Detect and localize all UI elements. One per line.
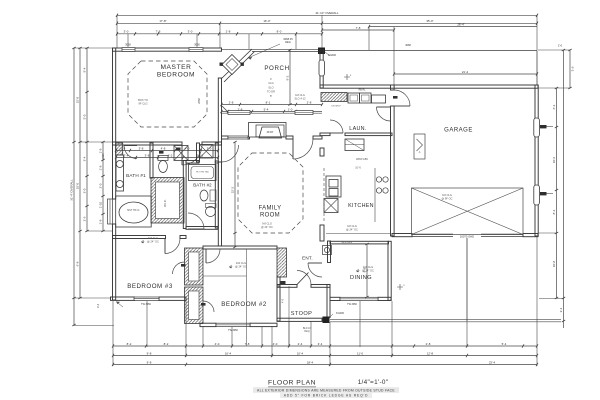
closet upper door swing xyxy=(173,262,185,274)
master bedroom south wall west part xyxy=(113,142,183,145)
stoop east wall xyxy=(327,285,330,318)
dining window xyxy=(340,297,378,300)
svg-text:9F CLG: 9F CLG xyxy=(138,101,147,105)
closet hatched walls lower xyxy=(185,287,204,324)
vanity sink 1 xyxy=(116,161,123,168)
cabinet box xyxy=(372,95,386,103)
apron line xyxy=(539,298,564,300)
stoop post (black) xyxy=(323,317,330,324)
svg-text:17'-8": 17'-8" xyxy=(159,19,166,23)
laundry recess hatched xyxy=(321,93,347,102)
svg-text:5'-4: 5'-4 xyxy=(502,342,507,346)
extension line xyxy=(80,141,112,143)
kitchen north wall stub xyxy=(320,133,330,136)
svg-text:2'-8: 2'-8 xyxy=(426,342,431,346)
elevation cross marker xyxy=(344,74,350,80)
svg-text:4'-0: 4'-0 xyxy=(273,342,278,346)
bedroom 2 north wall xyxy=(203,246,277,249)
svg-text:10'-8: 10'-8 xyxy=(552,260,556,267)
dining north colonnade xyxy=(330,241,389,244)
drive edge xyxy=(330,321,561,323)
left overall dim xyxy=(70,47,76,326)
svg-text:MASTER: MASTER xyxy=(160,64,191,71)
toilet bath1 xyxy=(158,156,168,161)
stoop north wall west xyxy=(277,285,297,288)
bedroom 3 north wall west part xyxy=(113,236,166,239)
left dim 4 xyxy=(99,141,105,232)
family room dim xyxy=(231,141,237,248)
ent closet box with circle xyxy=(323,246,332,255)
svg-text:16070 OHD: 16070 OHD xyxy=(460,234,474,238)
door tag xyxy=(181,264,186,267)
master bedroom window 1 xyxy=(122,48,135,52)
bath2 west wall xyxy=(183,161,186,229)
stoop west wall xyxy=(277,285,280,322)
right overall dim xyxy=(559,49,565,328)
svg-text:DEG: DEG xyxy=(285,40,291,44)
extension line xyxy=(261,327,263,347)
svg-text:BEDROOM #2: BEDROOM #2 xyxy=(221,301,267,308)
svg-text:15'-2: 15'-2 xyxy=(231,186,235,193)
island sink 1 xyxy=(329,180,338,188)
svg-text:3'-0: 3'-0 xyxy=(83,188,87,193)
svg-text:1'-10: 1'-10 xyxy=(99,201,103,208)
left dim 2 xyxy=(76,47,82,299)
svg-text:10'-6: 10'-6 xyxy=(355,167,361,170)
extension line xyxy=(202,326,204,347)
svg-text:ROOM: ROOM xyxy=(260,213,280,219)
svg-text:DINING: DINING xyxy=(350,275,372,281)
svg-text:GARAGE: GARAGE xyxy=(444,128,473,134)
leader to 45deg door xyxy=(248,44,280,58)
dining south wall east part xyxy=(378,297,391,300)
svg-text:KITCHEN: KITCHEN xyxy=(348,203,374,209)
svg-text:10'-0: 10'-0 xyxy=(76,182,80,189)
garage west wall lower xyxy=(391,106,395,236)
family north wall stub 3 xyxy=(286,136,293,139)
extension line xyxy=(288,321,290,347)
laundry south wall xyxy=(345,133,392,136)
svg-text:8'-2: 8'-2 xyxy=(127,342,132,346)
porch floor line xyxy=(222,112,323,114)
svg-text:7'-8: 7'-8 xyxy=(356,26,361,30)
bath2 east wall xyxy=(215,161,218,228)
attic access xyxy=(414,134,425,159)
bedroom 2 closet east hatched xyxy=(277,248,287,277)
laundry to garage door swing in garage xyxy=(394,90,410,106)
hall east wall xyxy=(215,143,218,163)
svg-text:9-8 CLG: 9-8 CLG xyxy=(262,222,272,226)
svg-text:TW 3050: TW 3050 xyxy=(228,329,238,332)
svg-text:REQ: REQ xyxy=(304,330,309,333)
bath2 shower west wall xyxy=(197,143,200,162)
extension line xyxy=(87,230,112,232)
extension line xyxy=(295,34,297,49)
svg-text:2'-8: 2'-8 xyxy=(229,100,234,104)
eave line over garage court xyxy=(325,50,537,52)
svg-text:8 HDR: 8 HDR xyxy=(328,53,336,57)
garage west wall upper stub xyxy=(391,85,395,90)
dining dim xyxy=(363,243,369,298)
bath2 north wall xyxy=(186,161,199,164)
window center line xyxy=(127,34,129,47)
extension line xyxy=(393,27,395,85)
dining east wall xyxy=(388,241,391,300)
svg-text:35'-0": 35'-0" xyxy=(426,19,433,23)
svg-text:ENT.: ENT. xyxy=(302,256,313,261)
svg-text:2020: 2020 xyxy=(103,153,105,159)
svg-text:TO DR: TO DR xyxy=(267,90,275,94)
bath2 south wall xyxy=(186,227,218,230)
svg-text:9'-2: 9'-2 xyxy=(286,75,290,80)
ent door swing xyxy=(308,263,322,277)
note lines xyxy=(253,387,399,393)
detail dim row left xyxy=(116,30,323,36)
extension line xyxy=(538,232,557,234)
svg-text:16'-0": 16'-0" xyxy=(263,19,270,23)
svg-text:28'-4": 28'-4" xyxy=(457,22,464,26)
porch post (black) xyxy=(318,48,325,55)
family west wall lower xyxy=(218,162,221,246)
kitchen wall stub north xyxy=(320,148,324,156)
shower with X xyxy=(174,146,188,161)
svg-text:9'-8: 9'-8 xyxy=(363,267,367,272)
extension line xyxy=(219,23,221,48)
hall dim row 2 xyxy=(115,153,219,159)
svg-text:3'-4: 3'-4 xyxy=(83,156,87,161)
svg-text:3050: 3050 xyxy=(125,43,131,47)
svg-text:FAMILY: FAMILY xyxy=(259,206,282,212)
bedroom 3 south wall east part xyxy=(159,297,186,300)
svg-text:1'-8: 1'-8 xyxy=(99,219,103,224)
garage south wall west stub xyxy=(392,234,412,237)
leader xyxy=(329,314,333,318)
leader xyxy=(325,52,330,56)
hall to laundry door xyxy=(330,120,343,133)
svg-text:3'-8: 3'-8 xyxy=(139,146,144,150)
svg-text:7'-8: 7'-8 xyxy=(245,342,250,346)
stoop south wall xyxy=(277,318,322,321)
master bedroom door swing xyxy=(182,145,202,165)
svg-text:5'-4: 5'-4 xyxy=(264,107,269,111)
eave line east end xyxy=(536,51,538,86)
svg-text:LIN SHLF: LIN SHLF xyxy=(331,106,341,108)
svg-text:BOX TO: BOX TO xyxy=(138,98,148,102)
svg-text:HOT FB TBD: HOT FB TBD xyxy=(196,172,209,174)
bath2 tub xyxy=(189,165,217,181)
hall dim row xyxy=(115,146,219,152)
bath1 east wall xyxy=(150,143,153,178)
svg-text:8 HDR: 8 HDR xyxy=(336,311,344,315)
extension line xyxy=(231,327,233,347)
bedroom 2 south wall west part xyxy=(200,323,216,326)
svg-text:@ 9F OC: @ 9F OC xyxy=(442,196,453,200)
hall to bath1 door swing xyxy=(124,146,137,159)
door tag xyxy=(176,148,181,151)
svg-text:1'-8: 1'-8 xyxy=(99,148,103,153)
garage east window 2 xyxy=(534,185,540,205)
extension line xyxy=(538,87,570,89)
extension line xyxy=(74,325,114,327)
elevation cross marker xyxy=(397,284,403,290)
extension line xyxy=(271,326,273,357)
door tag xyxy=(281,281,286,284)
extension line xyxy=(368,27,370,50)
extension line stoop xyxy=(288,286,290,347)
svg-text:8'-1: 8'-1 xyxy=(266,100,271,104)
window center line xyxy=(196,34,198,47)
svg-text:BATH #1: BATH #1 xyxy=(126,173,146,178)
cooktop burners xyxy=(376,177,381,182)
svg-text:ALL EXTERIOR DIMENSIONS ARE ME: ALL EXTERIOR DIMENSIONS ARE MEASURED FRO… xyxy=(257,388,395,392)
dining south wall west part xyxy=(330,297,340,300)
svg-text:3x6 CLG: 3x6 CLG xyxy=(148,236,158,240)
svg-text:3'-8: 3'-8 xyxy=(145,153,150,157)
svg-text:4'-2: 4'-2 xyxy=(168,153,173,157)
svg-text:9'-4: 9'-4 xyxy=(83,67,87,72)
bedroom 2 window xyxy=(216,323,250,326)
svg-text:CLG: CLG xyxy=(268,81,273,85)
detail dim row mid xyxy=(321,26,395,32)
svg-text:@ 24" OC: @ 24" OC xyxy=(147,239,159,243)
kitchen counter edge xyxy=(374,168,376,222)
master tub (oval) xyxy=(116,196,152,227)
bottom dim row 1 xyxy=(112,342,538,348)
porch east wall / hall west wall xyxy=(320,50,323,88)
master bedroom window 2 xyxy=(189,48,203,52)
svg-text:18'-4: 18'-4 xyxy=(307,360,314,364)
extension line xyxy=(391,301,393,357)
porch roof edge xyxy=(222,48,319,50)
closet lower door swing xyxy=(203,301,214,312)
bottom dim row 2 xyxy=(112,351,538,357)
door tag xyxy=(159,151,164,154)
svg-text:WDW ABV: WDW ABV xyxy=(356,158,368,161)
right dim porch height xyxy=(568,49,574,89)
svg-text:8'-2: 8'-2 xyxy=(164,342,169,346)
extension line xyxy=(536,15,538,50)
extension line xyxy=(321,15,323,48)
svg-text:4'-4: 4'-4 xyxy=(97,303,100,308)
hall to family room door swing xyxy=(222,145,239,162)
left dim 3 xyxy=(83,47,89,232)
extension line xyxy=(538,49,570,51)
svg-text:3x6 CLG: 3x6 CLG xyxy=(236,261,246,265)
family window west xyxy=(228,136,248,139)
garage east wall xyxy=(535,85,538,236)
svg-text:@ 24" OC: @ 24" OC xyxy=(235,264,247,268)
washer box xyxy=(348,93,360,103)
vanity sink 2 xyxy=(116,181,123,188)
svg-text:4'-0: 4'-0 xyxy=(282,298,285,303)
45 deg door (diamond) xyxy=(222,55,242,75)
svg-text:31'-4" OVERALL: 31'-4" OVERALL xyxy=(70,179,74,201)
porch window 2 xyxy=(295,111,313,115)
title underline xyxy=(268,386,316,388)
extension line xyxy=(185,300,187,357)
island sink 2 xyxy=(329,189,338,197)
svg-text:16'-4: 16'-4 xyxy=(225,351,232,355)
extension line xyxy=(74,297,110,299)
svg-text:7'-8: 7'-8 xyxy=(156,30,161,34)
svg-text:2'-8: 2'-8 xyxy=(307,100,312,104)
door swing in laundry xyxy=(377,107,391,121)
svg-text:10'-6: 10'-6 xyxy=(552,156,556,163)
svg-text:LAUN.: LAUN. xyxy=(349,126,366,132)
svg-text:9'-8: 9'-8 xyxy=(147,360,152,364)
family north wall stub 2 xyxy=(248,136,250,139)
extension line xyxy=(248,34,250,49)
svg-text:2'-6: 2'-6 xyxy=(83,216,87,221)
bottom dim row 3 xyxy=(112,360,538,366)
porch corner diagonal xyxy=(222,106,230,114)
svg-text:6'-8: 6'-8 xyxy=(76,261,80,266)
svg-text:9-8 CLG: 9-8 CLG xyxy=(295,93,305,97)
garage door track zone with X xyxy=(412,188,524,235)
exterior west wall lower xyxy=(113,224,116,300)
bedroom 3 window xyxy=(134,297,159,300)
overall width dimension xyxy=(116,11,538,17)
leader xyxy=(116,302,123,308)
svg-text:3'-0: 3'-0 xyxy=(188,30,193,34)
svg-text:RB RL: RB RL xyxy=(359,90,366,92)
right dim 2 xyxy=(552,87,558,299)
window on porch east wall xyxy=(319,60,324,76)
svg-text:PORCH: PORCH xyxy=(264,65,289,72)
svg-text:11'-0: 11'-0 xyxy=(357,351,364,355)
bedroom 2 door swing xyxy=(206,249,220,263)
svg-text:BEDROOM #3: BEDROOM #3 xyxy=(127,283,173,290)
extension line xyxy=(74,47,112,49)
family north wall stub 1 xyxy=(222,136,229,139)
svg-text:9-8 CLG: 9-8 CLG xyxy=(347,224,357,228)
pantry xyxy=(345,139,364,151)
svg-text:10'-4: 10'-4 xyxy=(297,351,304,355)
master bedroom ceiling octagon (dashed) xyxy=(128,61,207,127)
svg-text:5'-0: 5'-0 xyxy=(83,114,87,119)
bath2 door swing xyxy=(188,213,204,229)
svg-text:BATH #2: BATH #2 xyxy=(193,183,212,188)
svg-text:4'-8: 4'-8 xyxy=(161,146,166,150)
svg-text:3050: 3050 xyxy=(194,43,200,47)
svg-text:12'-8: 12'-8 xyxy=(427,351,434,355)
bedroom 3 south wall west part xyxy=(111,297,135,300)
bath hatched wall xyxy=(116,143,123,155)
svg-text:48 FP: 48 FP xyxy=(267,131,274,134)
drive edge line xyxy=(536,236,538,321)
svg-text:TW 3050: TW 3050 xyxy=(141,303,151,306)
extension line xyxy=(146,301,148,347)
extension line xyxy=(310,321,312,347)
porch dim row 2 xyxy=(221,107,323,113)
fireplace xyxy=(249,123,287,138)
svg-text:3'-4: 3'-4 xyxy=(559,307,563,312)
porch window 1 xyxy=(228,111,250,115)
svg-text:SLO 4-12: SLO 4-12 xyxy=(294,96,306,100)
bedroom 3 north wall east stub xyxy=(180,236,186,239)
svg-text:15'-8: 15'-8 xyxy=(76,96,80,103)
garage dim row xyxy=(368,22,537,28)
bath2 sink xyxy=(200,190,208,201)
svg-text:2868: 2868 xyxy=(197,98,201,104)
svg-text:8'-0: 8'-0 xyxy=(277,30,282,34)
extension line xyxy=(329,322,331,366)
closet hatched walls upper xyxy=(185,248,204,285)
svg-text:BLD ABV: BLD ABV xyxy=(342,240,353,244)
svg-text:1'-8: 1'-8 xyxy=(99,165,103,170)
svg-text:FLOOR PLAN: FLOOR PLAN xyxy=(268,380,316,387)
svg-text:BEDROOM: BEDROOM xyxy=(157,72,195,79)
dim line bedroom2 xyxy=(246,249,248,346)
extension line xyxy=(112,301,114,366)
svg-text:6'-4: 6'-4 xyxy=(552,104,556,109)
master closet hatched walls xyxy=(151,178,184,224)
dining west wall stub xyxy=(328,241,331,263)
drive edge 2 xyxy=(330,318,561,320)
svg-text:9'-2: 9'-2 xyxy=(570,67,574,72)
svg-text:4'-0: 4'-0 xyxy=(215,342,220,346)
stoop north wall east xyxy=(311,285,330,288)
svg-text:2'-8: 2'-8 xyxy=(226,30,231,34)
svg-text:41'-10" OVERALL: 41'-10" OVERALL xyxy=(315,11,339,15)
extension line xyxy=(116,15,118,48)
svg-text:9'-8: 9'-8 xyxy=(147,351,152,355)
extension line xyxy=(359,301,361,347)
svg-text:TW 3050: TW 3050 xyxy=(347,303,357,306)
second dimension row xyxy=(116,19,538,25)
svg-text:1/4"=1'-0": 1/4"=1'-0" xyxy=(358,379,389,386)
garage width dim xyxy=(393,70,538,76)
bedroom 2 south wall east part xyxy=(250,323,277,326)
door tag xyxy=(393,96,398,99)
ent wall stub xyxy=(277,277,280,286)
master bedroom east wall xyxy=(218,78,221,145)
bath2 shower with X xyxy=(200,145,214,159)
kitchen island xyxy=(326,176,341,197)
porch to family door swing xyxy=(293,139,313,159)
bath2 toilet xyxy=(206,207,216,217)
bath 1 window bay xyxy=(108,199,113,224)
exterior west wall upper xyxy=(113,48,116,199)
svg-text:2'-4: 2'-4 xyxy=(298,342,303,346)
broom closet xyxy=(324,199,338,213)
master bedroom south wall east part xyxy=(202,142,222,145)
svg-text:9-8 CLG: 9-8 CLG xyxy=(442,193,452,197)
svg-text:MST TB CL: MST TB CL xyxy=(127,209,140,212)
extension line xyxy=(536,321,538,366)
svg-text:4068: 4068 xyxy=(405,44,411,47)
svg-text:8'-4: 8'-4 xyxy=(552,209,556,214)
master bedroom north wall xyxy=(113,48,222,51)
vanity counter xyxy=(116,155,124,191)
porch dim row xyxy=(221,100,324,106)
dryer box xyxy=(360,93,372,103)
drive center line xyxy=(466,238,468,321)
extension line xyxy=(203,275,247,277)
family north wall stub 4 xyxy=(313,136,322,139)
garage overhead door xyxy=(412,233,523,235)
svg-text:21'-4: 21'-4 xyxy=(462,70,469,74)
front door swing into ent xyxy=(297,271,311,285)
svg-text:ADD 5" FOR BRICK LEDGE AS REQ': ADD 5" FOR BRICK LEDGE AS REQ'D xyxy=(284,394,369,398)
garage south wall east stub xyxy=(523,234,538,237)
svg-text:1'-0: 1'-0 xyxy=(288,107,293,111)
svg-text:SLO: SLO xyxy=(268,85,273,89)
svg-text:@ 24" OC: @ 24" OC xyxy=(346,227,358,231)
bedroom 3 door swing xyxy=(165,239,180,254)
svg-text:23'-4: 23'-4 xyxy=(489,360,496,364)
svg-text:3'-0: 3'-0 xyxy=(124,30,129,34)
